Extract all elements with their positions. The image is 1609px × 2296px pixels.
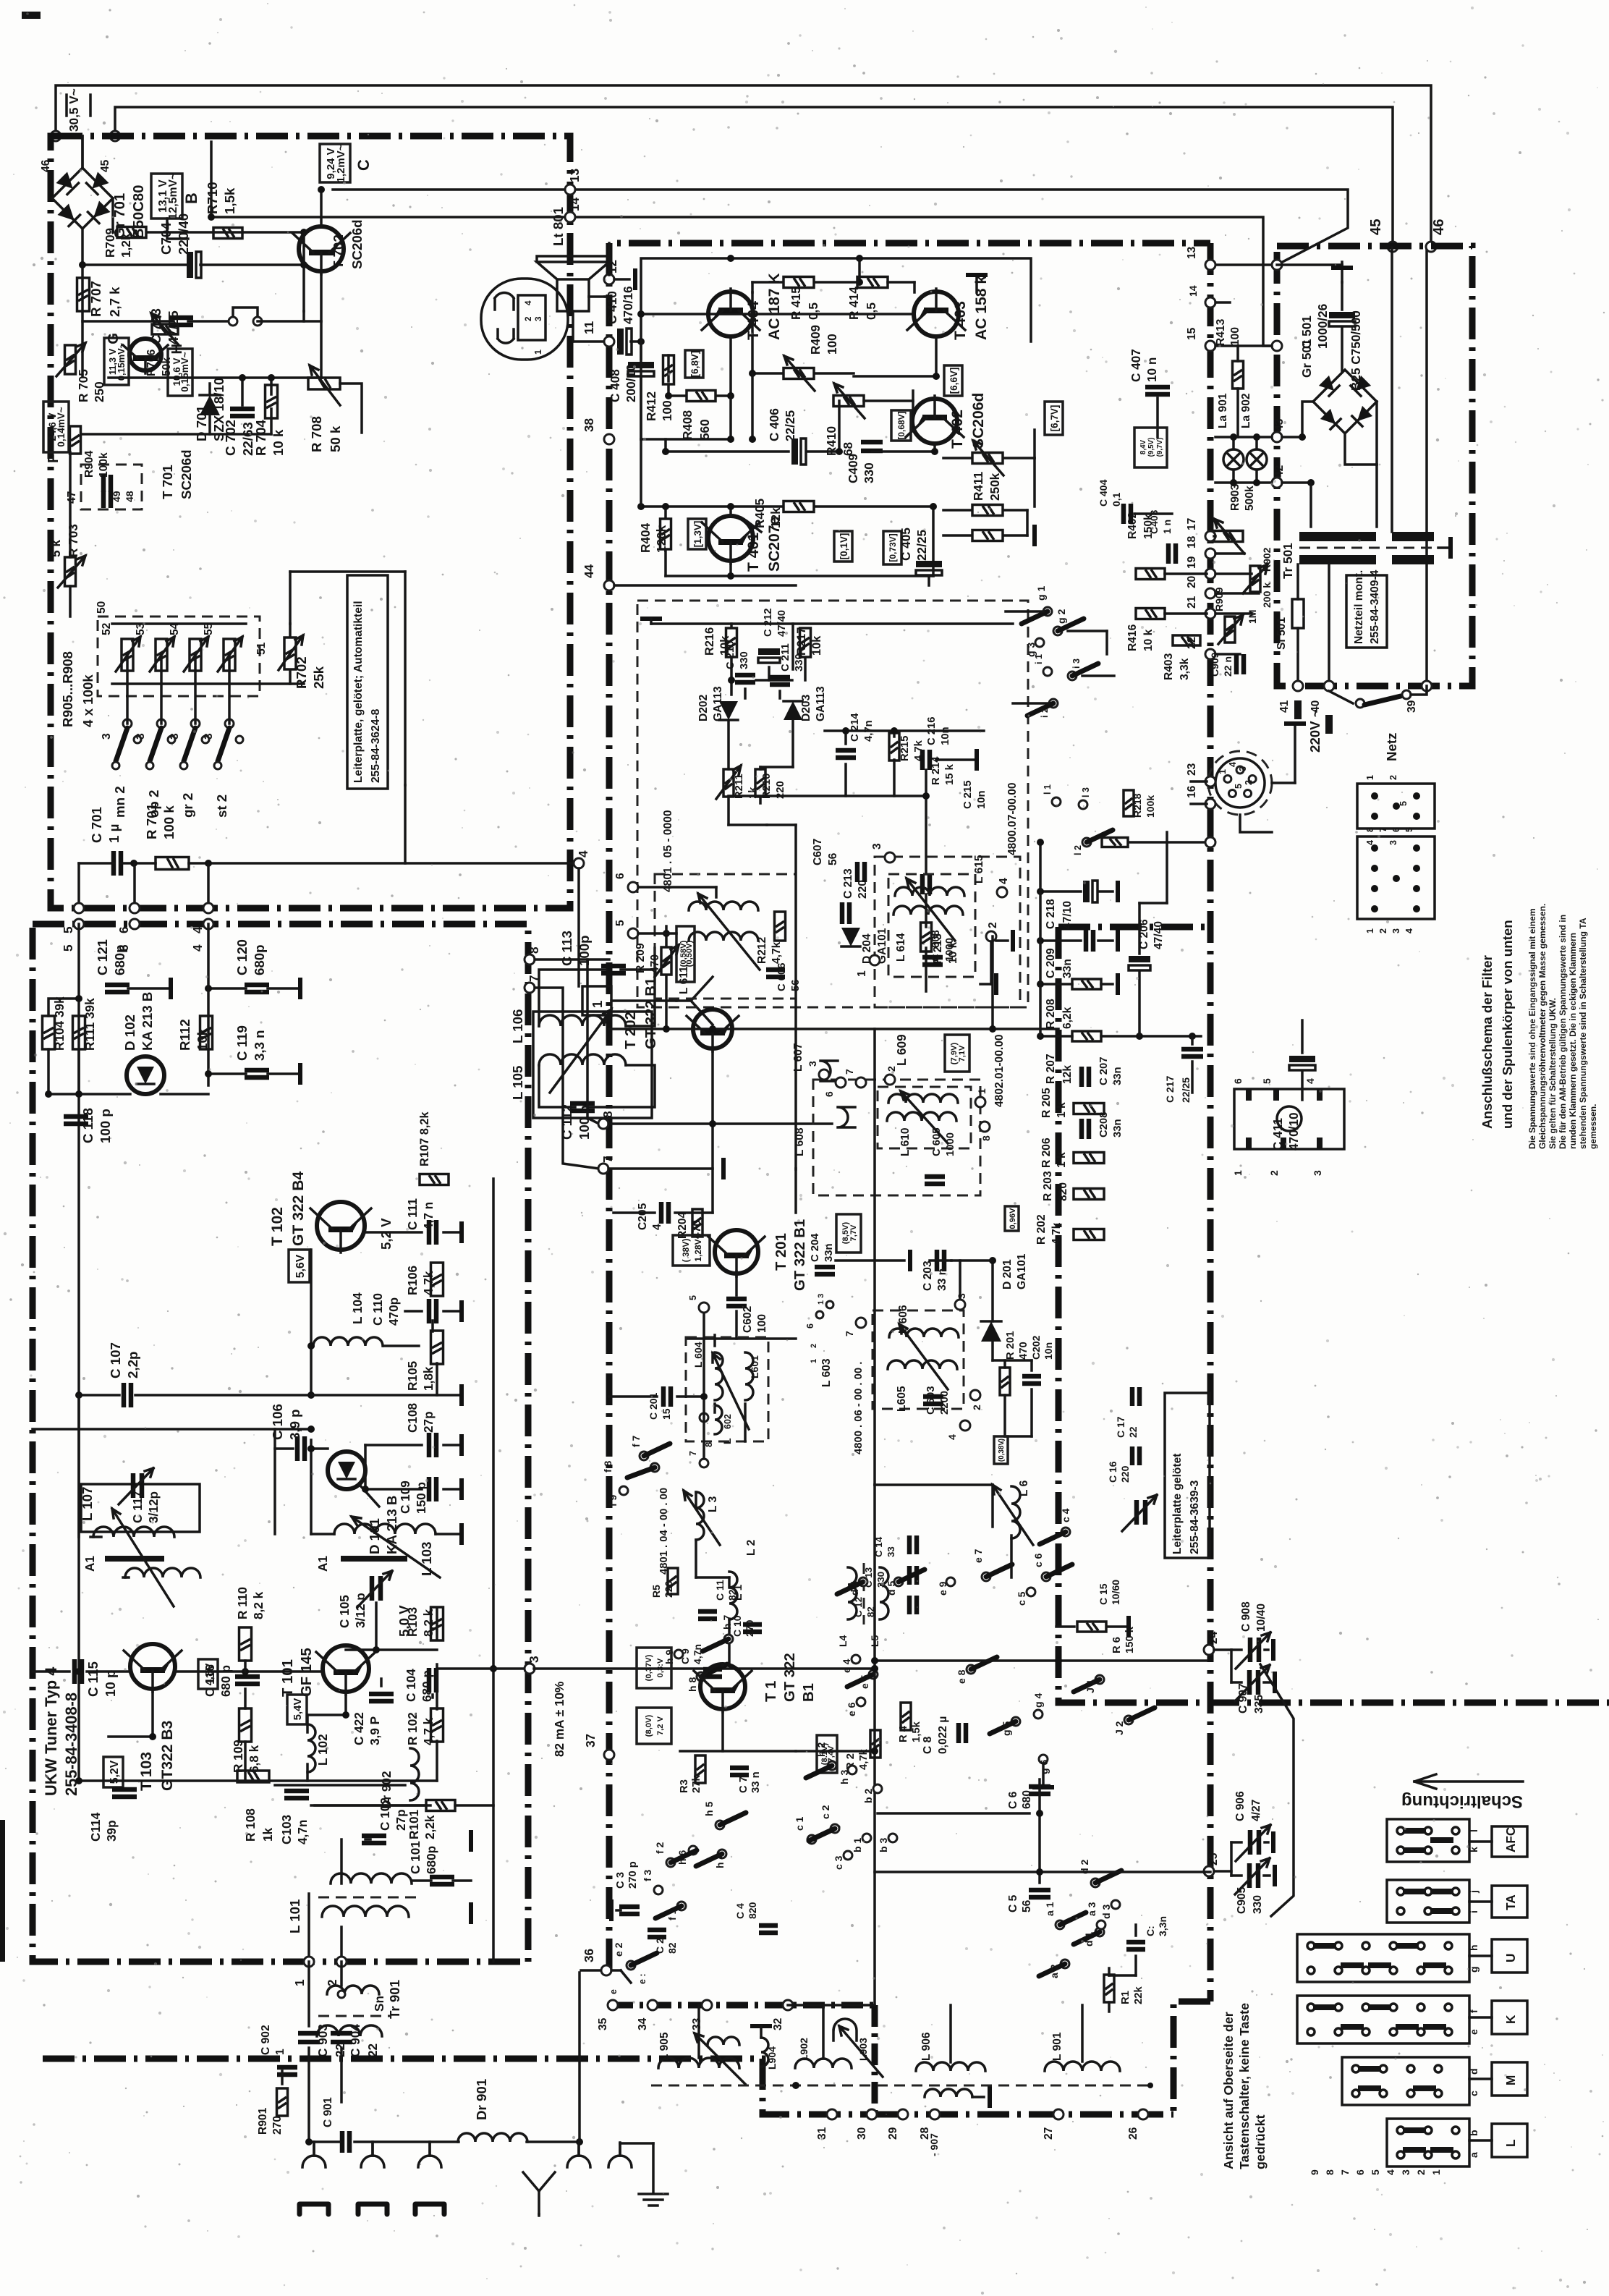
svg-text:100: 100: [660, 400, 674, 421]
ground C109: [443, 1488, 462, 1491]
svg-text:C 410: C 410: [605, 291, 619, 324]
svg-text:h 4: h 4: [714, 1854, 726, 1868]
svg-text:Tr 901: Tr 901: [387, 1980, 402, 2019]
svg-text:255-84-3409-4: 255-84-3409-4: [1369, 569, 1381, 644]
capacitor C606 56: [766, 970, 785, 977]
capacitor C403 1n: [1168, 543, 1176, 564]
transistor T103: [124, 1644, 182, 1692]
capacitor C102 27p: [362, 1836, 386, 1843]
label U: [1492, 1939, 1527, 1973]
node 2 tuner: [336, 1957, 347, 1967]
ground C203: [908, 1250, 912, 1271]
diode D204 GA101: [841, 928, 860, 946]
capacitor C9 4,7n: [703, 1669, 722, 1677]
svg-text:UKW Tuner Typ 4: UKW Tuner Typ 4: [42, 1667, 60, 1796]
svg-text:C114: C114: [88, 1812, 103, 1842]
trimmer C908: [1236, 1632, 1270, 1669]
node 38: [604, 434, 614, 444]
coil L605: [888, 1360, 957, 1369]
svg-text:8,2 k: 8,2 k: [251, 1591, 266, 1619]
voltage box 7,9V: [945, 1035, 969, 1072]
svg-text:h 9: h 9: [663, 1650, 675, 1664]
svg-text:C: C: [930, 954, 942, 962]
wire T403 emitter: [935, 336, 938, 376]
svg-text:[6,8V]: [6,8V]: [689, 351, 700, 378]
wire y1975: [33, 1428, 311, 1431]
svg-text:e :: e :: [637, 1973, 648, 1984]
svg-text:2,2p: 2,2p: [125, 1352, 140, 1378]
capacitor C103 4,7n: [284, 1791, 309, 1798]
FM can B box: [875, 857, 1020, 1007]
svg-text:3: 3: [1238, 766, 1248, 771]
svg-text:330: 330: [794, 653, 805, 672]
capacitor C2 82: [648, 1930, 666, 1937]
svg-text:40: 40: [1309, 700, 1322, 713]
svg-text:1,2k: 1,2k: [119, 233, 133, 258]
svg-text:4: 4: [998, 878, 1010, 884]
svg-text:C 901: C 901: [322, 2097, 334, 2127]
resistor R2 4,7k: [870, 1730, 880, 1758]
svg-text:R106: R106: [405, 1266, 420, 1295]
svg-text:1k: 1k: [260, 1827, 275, 1842]
wire canE: [609, 1395, 657, 1398]
svg-text:c 5: c 5: [1016, 1591, 1027, 1606]
node 5 tuner: [74, 919, 84, 929]
voltage box 8,4V triple: [1134, 428, 1167, 467]
voltage box 5,6V T102: [289, 1250, 310, 1282]
amp inner frame: [641, 258, 1031, 439]
svg-text:Lt 801: Lt 801: [551, 207, 566, 246]
svg-text:e 6: e 6: [846, 1702, 857, 1716]
svg-text:Dr 901: Dr 901: [474, 2079, 489, 2120]
svg-text:12,5mV~: 12,5mV~: [167, 173, 179, 220]
svg-text:R 707: R 707: [88, 281, 103, 317]
svg-text:2: 2: [971, 1405, 982, 1410]
svg-text:3: 3: [1391, 928, 1401, 933]
svg-text:8: 8: [1324, 2169, 1336, 2175]
svg-text:50: 50: [95, 601, 108, 614]
svg-text:602: 602: [723, 1414, 733, 1429]
node 37: [604, 1750, 614, 1760]
resistor R216 10k: [726, 628, 737, 657]
switch block AFC: [1387, 1819, 1469, 1862]
wires contacts to bottom: [126, 655, 129, 724]
svg-text:R 701: R 701: [144, 803, 159, 839]
svg-text:82 mA ± 10%: 82 mA ± 10%: [552, 1682, 566, 1757]
svg-text:1: 1: [810, 1359, 818, 1363]
svg-text:i 3: i 3: [1071, 658, 1082, 669]
dashed box around trim: [81, 465, 142, 509]
node 8 box3 edge: [598, 1119, 608, 1129]
resistor R110 8,2k: [239, 1627, 252, 1661]
svg-text:R 202: R 202: [1035, 1214, 1048, 1245]
svg-text:L 615: L 615: [973, 855, 985, 884]
node 46 left: [51, 131, 61, 141]
trimmer cluster 47: [103, 475, 111, 492]
node 7 box3 edge: [598, 1164, 608, 1174]
wire sw to T702: [258, 311, 304, 321]
svg-text:i: i: [1468, 1910, 1479, 1913]
svg-text:Leiterplatte gelötet: Leiterplatte gelötet: [1171, 1454, 1184, 1555]
svg-text:L 607: L 607: [792, 1043, 804, 1072]
tuning arrow can B: [907, 878, 955, 941]
svg-text:2: 2: [1415, 2169, 1427, 2175]
coil L107b: [125, 1568, 200, 1577]
svg-text:C 702: C 702: [223, 420, 238, 456]
svg-text:U: U: [1503, 1954, 1518, 1962]
ground C110: [443, 1310, 462, 1313]
svg-text:R101: R101: [407, 1809, 421, 1839]
switch h7: [724, 1635, 733, 1643]
node row A labels: [608, 2000, 618, 2010]
capacitor C422 3,9p: [369, 1694, 394, 1701]
svg-text:R217: R217: [795, 627, 808, 656]
terminal box 1 antenna: [577, 868, 580, 986]
capacitor C215 10n: [922, 874, 930, 894]
label l3: [1079, 800, 1087, 809]
svg-text:T 102: T 102: [269, 1207, 286, 1246]
resistor R405: [784, 501, 814, 512]
voltage box 8,1V: [817, 1735, 837, 1773]
svg-text:e 8: e 8: [956, 1669, 967, 1684]
svg-text:12k: 12k: [768, 507, 783, 528]
wire det out: [767, 823, 796, 826]
svg-text:335: 335: [1253, 1695, 1265, 1713]
svg-text:18: 18: [1186, 535, 1198, 548]
switch c5: [1027, 1588, 1035, 1596]
capacitor C406 22/25: [791, 439, 806, 465]
svg-text:23: 23: [1186, 763, 1198, 776]
svg-text:27k: 27k: [691, 1775, 702, 1793]
node 4 tuner: [203, 919, 213, 929]
svg-text:22: 22: [333, 2043, 347, 2057]
choke Dr902: [410, 1748, 419, 1800]
wire net14: [211, 217, 1277, 346]
svg-text:(0,50V): (0,50V): [685, 940, 694, 967]
node 21: [1205, 609, 1215, 619]
svg-text:(9,7V): (9,7V): [1156, 438, 1164, 457]
node 4 box1: [203, 903, 213, 913]
resistor R106 4,7k: [431, 1263, 443, 1296]
svg-text:44: 44: [582, 564, 596, 578]
svg-text:R901: R901: [257, 2107, 269, 2135]
svg-text:La 901: La 901: [1217, 393, 1229, 428]
svg-text:L 604: L 604: [692, 1342, 704, 1368]
svg-text:24: 24: [1207, 1631, 1220, 1644]
resistor R409 100: [784, 368, 814, 379]
switch block TA: [1387, 1880, 1469, 1923]
resistor R403 3,3k: [1173, 635, 1200, 645]
svg-text:100: 100: [756, 1314, 768, 1333]
svg-text:200 k: 200 k: [1261, 583, 1273, 608]
svg-text:Gleichspannungsröhrenvoltmeter: Gleichspannungsröhrenvoltmeter gegen Mas…: [1537, 904, 1548, 1149]
svg-text:a 3: a 3: [1086, 1902, 1098, 1916]
svg-text:1000: 1000: [945, 1132, 956, 1156]
wire secondary 45: [1391, 247, 1393, 532]
svg-text:C202: C202: [1030, 1335, 1042, 1360]
svg-text:820: 820: [747, 1902, 758, 1919]
svg-text:D 102: D 102: [122, 1014, 137, 1051]
svg-text:T 103: T 103: [138, 1752, 155, 1791]
svg-text:mn 2: mn 2: [112, 786, 127, 818]
wire am rail2: [875, 1483, 993, 1486]
svg-text:C 904: C 904: [348, 2024, 362, 2057]
svg-text:R909: R909: [1213, 587, 1225, 611]
svg-text:T 702: T 702: [331, 234, 346, 269]
wire T202: [711, 1049, 714, 1213]
svg-text:L601: L601: [749, 1355, 760, 1378]
core L4L5: [863, 1563, 865, 1624]
svg-text:8: 8: [527, 946, 541, 954]
switch e2: [627, 1961, 635, 1970]
svg-text:L904: L904: [766, 2046, 778, 2070]
svg-text:48: 48: [124, 491, 135, 502]
coil L906: [916, 2062, 985, 2071]
svg-text:26: 26: [1127, 2127, 1139, 2140]
wire R415: [752, 281, 783, 284]
svg-text:39p: 39p: [104, 1820, 119, 1842]
svg-text:f: f: [1468, 2009, 1479, 2013]
svg-text:R111 39k: R111 39k: [82, 998, 97, 1051]
svg-text:10 p: 10 p: [103, 1670, 118, 1697]
node 18: [1205, 548, 1215, 559]
diode D202 GA113: [719, 701, 738, 720]
svg-text:C 903: C 903: [315, 2024, 330, 2057]
svg-text:R413: R413: [1215, 318, 1227, 346]
svg-text:C 207: C 207: [1098, 1057, 1110, 1086]
wire L101: [315, 1804, 426, 1807]
switch c6: [1042, 1572, 1050, 1581]
capacitor C12 82: [909, 1596, 917, 1614]
resistor R4 1,5k: [901, 1703, 911, 1730]
wire g contacts: [1006, 610, 1043, 613]
capacitor C114 39p: [112, 1789, 137, 1797]
coil L902: [795, 2059, 852, 2068]
node 45 left: [110, 131, 120, 141]
svg-text:2: 2: [1388, 775, 1398, 780]
node 17: [1205, 531, 1215, 541]
voltage box 6,6V: [944, 365, 962, 396]
capacitor C404 0,1: [1124, 504, 1131, 524]
voltage box 38V: [673, 1235, 710, 1266]
svg-text:C 15: C 15: [1098, 1583, 1109, 1605]
coil L905: [658, 2058, 739, 2068]
wire bridge left: [1302, 402, 1313, 437]
dash-dot border bottom AM area: [43, 2059, 875, 2114]
svg-text:L 107: L 107: [80, 1487, 95, 1521]
svg-text:e 5: e 5: [859, 1674, 870, 1689]
svg-text:4,7 k: 4,7 k: [421, 1717, 436, 1745]
svg-text:a: a: [1468, 2152, 1479, 2158]
switch a1: [1056, 1920, 1064, 1929]
svg-text:R 108: R 108: [243, 1808, 258, 1842]
svg-text:R 206: R 206: [1040, 1138, 1053, 1168]
svg-text:R105: R105: [405, 1360, 420, 1391]
wire antenna row: [79, 862, 114, 865]
svg-text:4,7 n: 4,7 n: [421, 1202, 436, 1230]
svg-text:L: L: [721, 1438, 733, 1444]
svg-text:M: M: [1503, 2075, 1518, 2085]
label b2: [873, 1784, 882, 1793]
svg-text:100: 100: [825, 334, 839, 355]
svg-text:GA113: GA113: [712, 686, 724, 721]
svg-text:AFC: AFC: [1503, 1827, 1518, 1852]
svg-text:8,2 k: 8,2 k: [421, 1609, 436, 1637]
wire D102 row: [48, 1093, 130, 1096]
svg-text:10 k: 10 k: [271, 429, 286, 456]
svg-text:Leiterplatte, gelötet; Automat: Leiterplatte, gelötet; Automatikteil: [352, 601, 365, 783]
svg-text:680: 680: [1021, 1790, 1033, 1809]
ferrite bar A1 right: [341, 1556, 407, 1562]
capacitor C904 22: [331, 2033, 352, 2042]
capacitor C207 33n: [1082, 1067, 1089, 1087]
svg-text:C 212: C 212: [763, 609, 774, 637]
svg-text:4,7k: 4,7k: [1050, 1222, 1063, 1245]
resistor R412 100: [663, 355, 674, 384]
coil L601 canE: [745, 1352, 753, 1400]
switch g2: [1053, 627, 1062, 635]
capacitor C121 680p: [105, 985, 130, 992]
svg-text:j: j: [1468, 1890, 1479, 1894]
svg-text:f 1: f 1: [666, 1908, 678, 1920]
svg-text:5: 5: [1404, 827, 1414, 832]
svg-text:19: 19: [1186, 556, 1198, 569]
node 2 canB: [986, 931, 996, 941]
svg-text:3: 3: [169, 733, 181, 740]
svg-text:22/25: 22/25: [1180, 1077, 1192, 1103]
svg-text:220: 220: [1119, 1465, 1131, 1483]
svg-text:0,96V: 0,96V: [1009, 1208, 1017, 1229]
svg-text:R 201: R 201: [1005, 1331, 1016, 1360]
svg-text:T 202: T 202: [623, 1012, 639, 1049]
transistor T701: [123, 339, 168, 373]
pot R902 200k: [1250, 566, 1260, 592]
filter pinout box2: [1357, 836, 1435, 919]
svg-text:GA113: GA113: [815, 686, 827, 721]
wire node8 right: [608, 1122, 832, 1125]
transistor T202: [687, 1009, 739, 1051]
resistor R109 6,8k: [239, 1708, 252, 1742]
svg-text:e 7: e 7: [972, 1549, 984, 1563]
svg-text:und der Spulenkörper von unten: und der Spulenkörper von unten: [1500, 920, 1515, 1129]
svg-text:4,8V: 4,8V: [203, 1664, 216, 1686]
coil L103: [334, 1524, 436, 1534]
capacitor C201 15: [663, 1386, 671, 1407]
resistor R6 150k: [1077, 1622, 1106, 1632]
AM can C box: [813, 1080, 980, 1195]
svg-text:3: 3: [956, 1293, 967, 1299]
wire amp rail2: [641, 313, 914, 315]
label f3: [654, 1886, 663, 1894]
node 25: [1204, 1866, 1214, 1876]
pot R909 1M: [1225, 617, 1235, 643]
svg-text:Tr 501: Tr 501: [1281, 543, 1295, 579]
svg-text:h 2: h 2: [815, 1742, 827, 1757]
svg-text:7: 7: [527, 975, 541, 982]
svg-text:0,1: 0,1: [1111, 492, 1122, 507]
svg-text:560: 560: [697, 419, 712, 440]
wire i contacts: [1082, 674, 1114, 677]
svg-text:Gr 501: Gr 501: [1299, 339, 1314, 378]
resistor R207 12k: [1072, 1031, 1101, 1041]
node 44: [604, 580, 614, 590]
svg-text:6: 6: [116, 926, 131, 933]
svg-text:Anschlußschema der Filter: Anschlußschema der Filter: [1479, 955, 1495, 1129]
capacitor C106 3,9p: [297, 1436, 305, 1461]
svg-text:C 17: C 17: [1115, 1416, 1126, 1438]
resistor R112 10k: [200, 1016, 213, 1049]
switch block L: [1387, 2119, 1469, 2166]
svg-text:[6,7V]: [6,7V]: [1049, 405, 1060, 432]
transistor T404: [702, 289, 760, 336]
wire D201 down: [991, 1342, 994, 1360]
ground T403: [975, 275, 978, 292]
svg-text:33n: 33n: [1112, 1119, 1124, 1138]
svg-text:R 208: R 208: [1045, 999, 1057, 1029]
svg-text:5,6V: 5,6V: [294, 1254, 307, 1278]
svg-text:c 4: c 4: [1060, 1508, 1071, 1522]
wire net13 inside: [1277, 263, 1342, 266]
svg-text:d: d: [1468, 2068, 1479, 2075]
resistor R5 220: [668, 1568, 678, 1594]
svg-text:56: 56: [827, 852, 839, 865]
svg-text:TA: TA: [1503, 1894, 1518, 1910]
svg-text:82: 82: [666, 1942, 678, 1954]
svg-text:Si 501: Si 501: [1275, 617, 1288, 650]
svg-text:R 109: R 109: [231, 1740, 245, 1773]
svg-text:a 1: a 1: [1044, 1902, 1056, 1916]
svg-text:3: 3: [1388, 840, 1398, 845]
capacitor C407 10n: [1145, 387, 1170, 394]
svg-text:f 2: f 2: [654, 1842, 666, 1854]
voltage box 0,96V: [1005, 1206, 1019, 1231]
svg-text:L 6: L 6: [1018, 1480, 1030, 1496]
capacitor C411 470/10: [1289, 1056, 1315, 1070]
switch h8: [697, 1672, 705, 1681]
svg-text:4800 . 06 - 00 . 00 .: 4800 . 06 - 00 . 00 .: [853, 1362, 865, 1454]
resistor R408 560: [687, 391, 716, 402]
svg-text:100 p: 100 p: [577, 1105, 592, 1140]
svg-text:h 8: h 8: [687, 1677, 698, 1692]
voltage box 0,38V: [994, 1436, 1008, 1464]
svg-text:100 k: 100 k: [161, 805, 177, 839]
svg-text:D202: D202: [697, 694, 710, 721]
label L: [1492, 2124, 1527, 2157]
leader lines to switch assembly: [1260, 1664, 1294, 1916]
svg-text:C 6: C 6: [1007, 1791, 1019, 1809]
wire R709 right: [148, 231, 304, 234]
coupling loops L607 L608: [820, 1061, 855, 1127]
svg-text:2: 2: [524, 316, 533, 321]
svg-text:D203: D203: [800, 694, 812, 721]
node 6 canA: [628, 882, 638, 892]
svg-text:32: 32: [772, 2017, 784, 2030]
svg-text:4/27: 4/27: [1250, 1800, 1262, 1821]
node 46 right: [1426, 242, 1436, 252]
svg-text:R 415: R 415: [789, 287, 803, 320]
switch J1: [1095, 1675, 1104, 1684]
coil L5: [880, 1567, 888, 1619]
svg-text:42: 42: [1273, 465, 1286, 478]
svg-text:255-84-3639-3: 255-84-3639-3: [1189, 1480, 1201, 1554]
svg-text:200/10: 200/10: [624, 364, 638, 402]
svg-text:7: 7: [1339, 2169, 1351, 2175]
svg-text:C 405: C 405: [899, 528, 913, 561]
voltage box 6,7V: [1045, 402, 1063, 435]
svg-text:g 1: g 1: [1035, 586, 1047, 601]
switch g5: [1011, 1717, 1020, 1726]
svg-text:R 708: R 708: [309, 416, 324, 452]
